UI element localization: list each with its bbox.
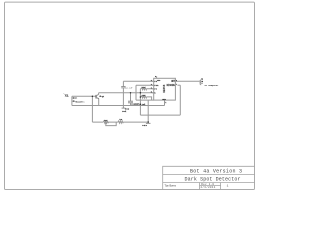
transistor Q1 collector [96, 93, 99, 96]
svg-text:Dark Spot Detector: Dark Spot Detector [185, 176, 241, 182]
ground symbol 1 [122, 106, 124, 109]
capacitor C1 lead upper [122, 81, 124, 86]
svg-text:10uF: 10uF [134, 102, 140, 105]
junction dots [92, 92, 149, 123]
resistor R4 leads [140, 88, 153, 90]
svg-text:Tim Burns: Tim Burns [164, 184, 176, 188]
capacitor C1 lead lower (crosses main wire, to rail) [122, 88, 124, 106]
connector X1 top wire to Q1 base [72, 95, 96, 97]
transistor Q1 emitter arrowhead [98, 98, 99, 99]
frame border [5, 2, 255, 189]
svg-text:2/3/2011: 2/3/2011 [201, 186, 216, 189]
main collector wire to IC pin row4 [99, 92, 154, 94]
resistor R4 zigzag [141, 88, 147, 90]
svg-text:Bot 4a Version 3: Bot 4a Version 3 [190, 169, 242, 175]
capacitor C2 plates [128, 101, 133, 103]
IC right pin stubs [175, 80, 177, 82]
discharge stub wire [178, 84, 181, 86]
IC pin8 stub [156, 76, 158, 78]
capacitor C2 lead upper [130, 93, 132, 101]
svg-text:C4 .1uF: C4 .1uF [125, 86, 133, 89]
capacitor C2 lead lower [130, 103, 132, 106]
IC bottom pin stub [164, 100, 166, 105]
IC left pin names [154, 80, 159, 95]
svg-text:1: 1 [227, 185, 229, 188]
resistor R3 zigzag [118, 121, 123, 123]
svg-text:To Computer: To Computer [204, 84, 219, 87]
svg-text:DISCHG: DISCHG [167, 84, 176, 87]
potentiometer R2 zigzag [103, 121, 108, 123]
discharge chain vertical [139, 89, 141, 115]
connector X1 pin stub 1 [72, 97, 74, 98]
svg-text:GND: GND [142, 124, 147, 127]
potentiometer R2 wiper wire [106, 122, 116, 126]
connector J2 pads [202, 81, 204, 83]
potentiometer R2 wiper arrow [105, 123, 106, 124]
discharge loop vertical [179, 85, 181, 115]
resistor R5 leads [140, 97, 151, 100]
svg-text:NE555: NE555 [163, 84, 166, 92]
X1 label tick [64, 93, 65, 94]
resistor R5 zigzag [141, 96, 147, 98]
wire E (discharge return) [140, 114, 180, 116]
wire A drop [135, 85, 137, 100]
svg-text:X1: X1 [65, 93, 69, 97]
lower wire [92, 121, 148, 123]
IC left pin numbers [151, 79, 153, 94]
svg-text:PhotoCell 1: PhotoCell 1 [75, 100, 85, 103]
small labels [64, 75, 220, 127]
transistor Q1 base bar [95, 95, 97, 99]
transistor Q1 photo arrow [99, 96, 101, 97]
out wire [178, 80, 200, 82]
IC box [154, 78, 176, 100]
wire C [131, 103, 141, 105]
connector X1 left edge [71, 96, 73, 105]
ground rail [72, 105, 165, 107]
connector X1 pin stub 2 [72, 100, 74, 101]
ground feeder vertical [147, 100, 149, 122]
ground symbol 2 [147, 122, 149, 123]
wire C1/CV to IC pin row1 [123, 80, 153, 82]
wire under IC bottom [136, 99, 154, 101]
capacitor C1 plates [121, 87, 125, 88]
transistor Q1 emitter [96, 97, 99, 105]
connector J2 pin 2 pad arc [200, 83, 201, 85]
wire A to IC pin row2 [136, 84, 154, 86]
connector J2 pin 1 pad arc [200, 80, 201, 83]
title block outline [163, 166, 255, 189]
wire: drop from base node to lower wire [91, 96, 93, 122]
IC left pin stubs [152, 81, 154, 93]
